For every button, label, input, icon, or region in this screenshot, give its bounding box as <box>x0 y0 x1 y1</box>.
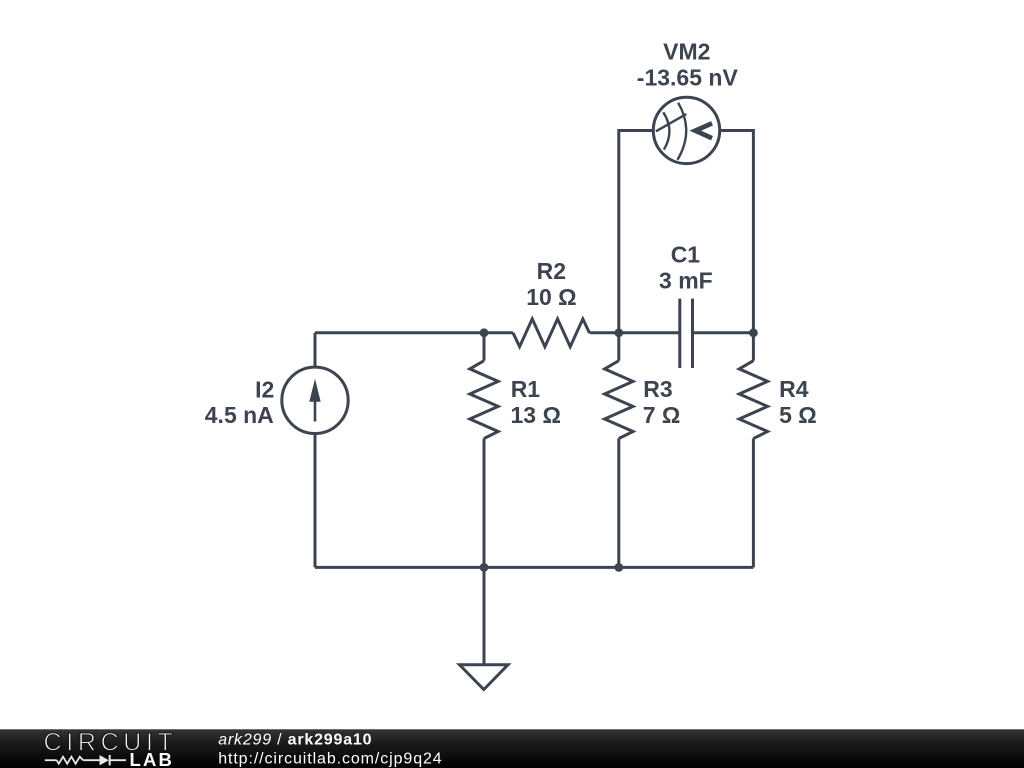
wire I2 column bottom <box>314 434 317 568</box>
wire node B up to voltmeter <box>619 131 654 333</box>
current source I2 circle <box>282 367 348 433</box>
svg-text:I2: I2 <box>255 377 274 403</box>
svg-text:R2: R2 <box>537 258 566 284</box>
resistor R4 zigzag <box>739 361 767 439</box>
wire ground lead <box>483 567 486 663</box>
resistor R1 zigzag <box>470 361 498 439</box>
svg-text:R1: R1 <box>511 376 541 402</box>
svg-text:13 Ω: 13 Ω <box>511 402 561 428</box>
wire R3 top lead <box>617 333 620 361</box>
capacitor C1 plates <box>680 299 693 368</box>
footer bar <box>0 729 1024 768</box>
svg-text:ark299 / ark299a10: ark299 / ark299a10 <box>218 732 372 749</box>
wire C1 right to node C <box>693 331 754 334</box>
svg-text:R3: R3 <box>643 376 672 402</box>
wire R4 top lead <box>752 333 755 361</box>
wire voltmeter right down to node C <box>720 131 754 333</box>
wire R4 bottom lead <box>752 439 755 568</box>
wire R1 top lead <box>483 333 486 361</box>
ground junction dot right <box>614 563 623 572</box>
ground symbol triangle <box>460 665 509 690</box>
svg-text:-13.65 nV: -13.65 nV <box>637 65 739 91</box>
node A junction dot <box>480 328 489 337</box>
wire I2 column top <box>314 333 317 368</box>
wire R3 bottom lead <box>617 439 620 568</box>
svg-text:VM2: VM2 <box>663 39 710 65</box>
resistor R2 zigzag <box>513 319 589 347</box>
svg-text:4.5 nA: 4.5 nA <box>205 402 274 428</box>
svg-text:10 Ω: 10 Ω <box>526 284 576 310</box>
wire bottom horizontal <box>315 566 753 569</box>
svg-text:R4: R4 <box>779 376 809 402</box>
wire R1 bottom lead <box>483 439 486 568</box>
svg-text:5 Ω: 5 Ω <box>779 402 817 428</box>
node B junction dot <box>614 328 623 337</box>
svg-text:7 Ω: 7 Ω <box>643 402 681 428</box>
current source I2 arrow <box>309 379 320 422</box>
resistor R3 zigzag <box>605 361 633 439</box>
svg-text:LAB: LAB <box>130 749 175 768</box>
logo resistor-diode glyph <box>45 755 126 765</box>
wire R2 right to node B <box>589 331 679 334</box>
svg-text:C1: C1 <box>671 241 701 267</box>
svg-text:http://circuitlab.com/cjp9q24: http://circuitlab.com/cjp9q24 <box>218 751 442 768</box>
wire mid horizontal left (node to R2) <box>315 331 513 334</box>
voltmeter VM2 circle <box>653 97 719 163</box>
node C junction dot <box>749 328 758 337</box>
voltmeter VM2 meter glyph <box>656 103 712 160</box>
svg-text:3 mF: 3 mF <box>659 267 713 293</box>
ground junction dot left <box>480 563 489 572</box>
